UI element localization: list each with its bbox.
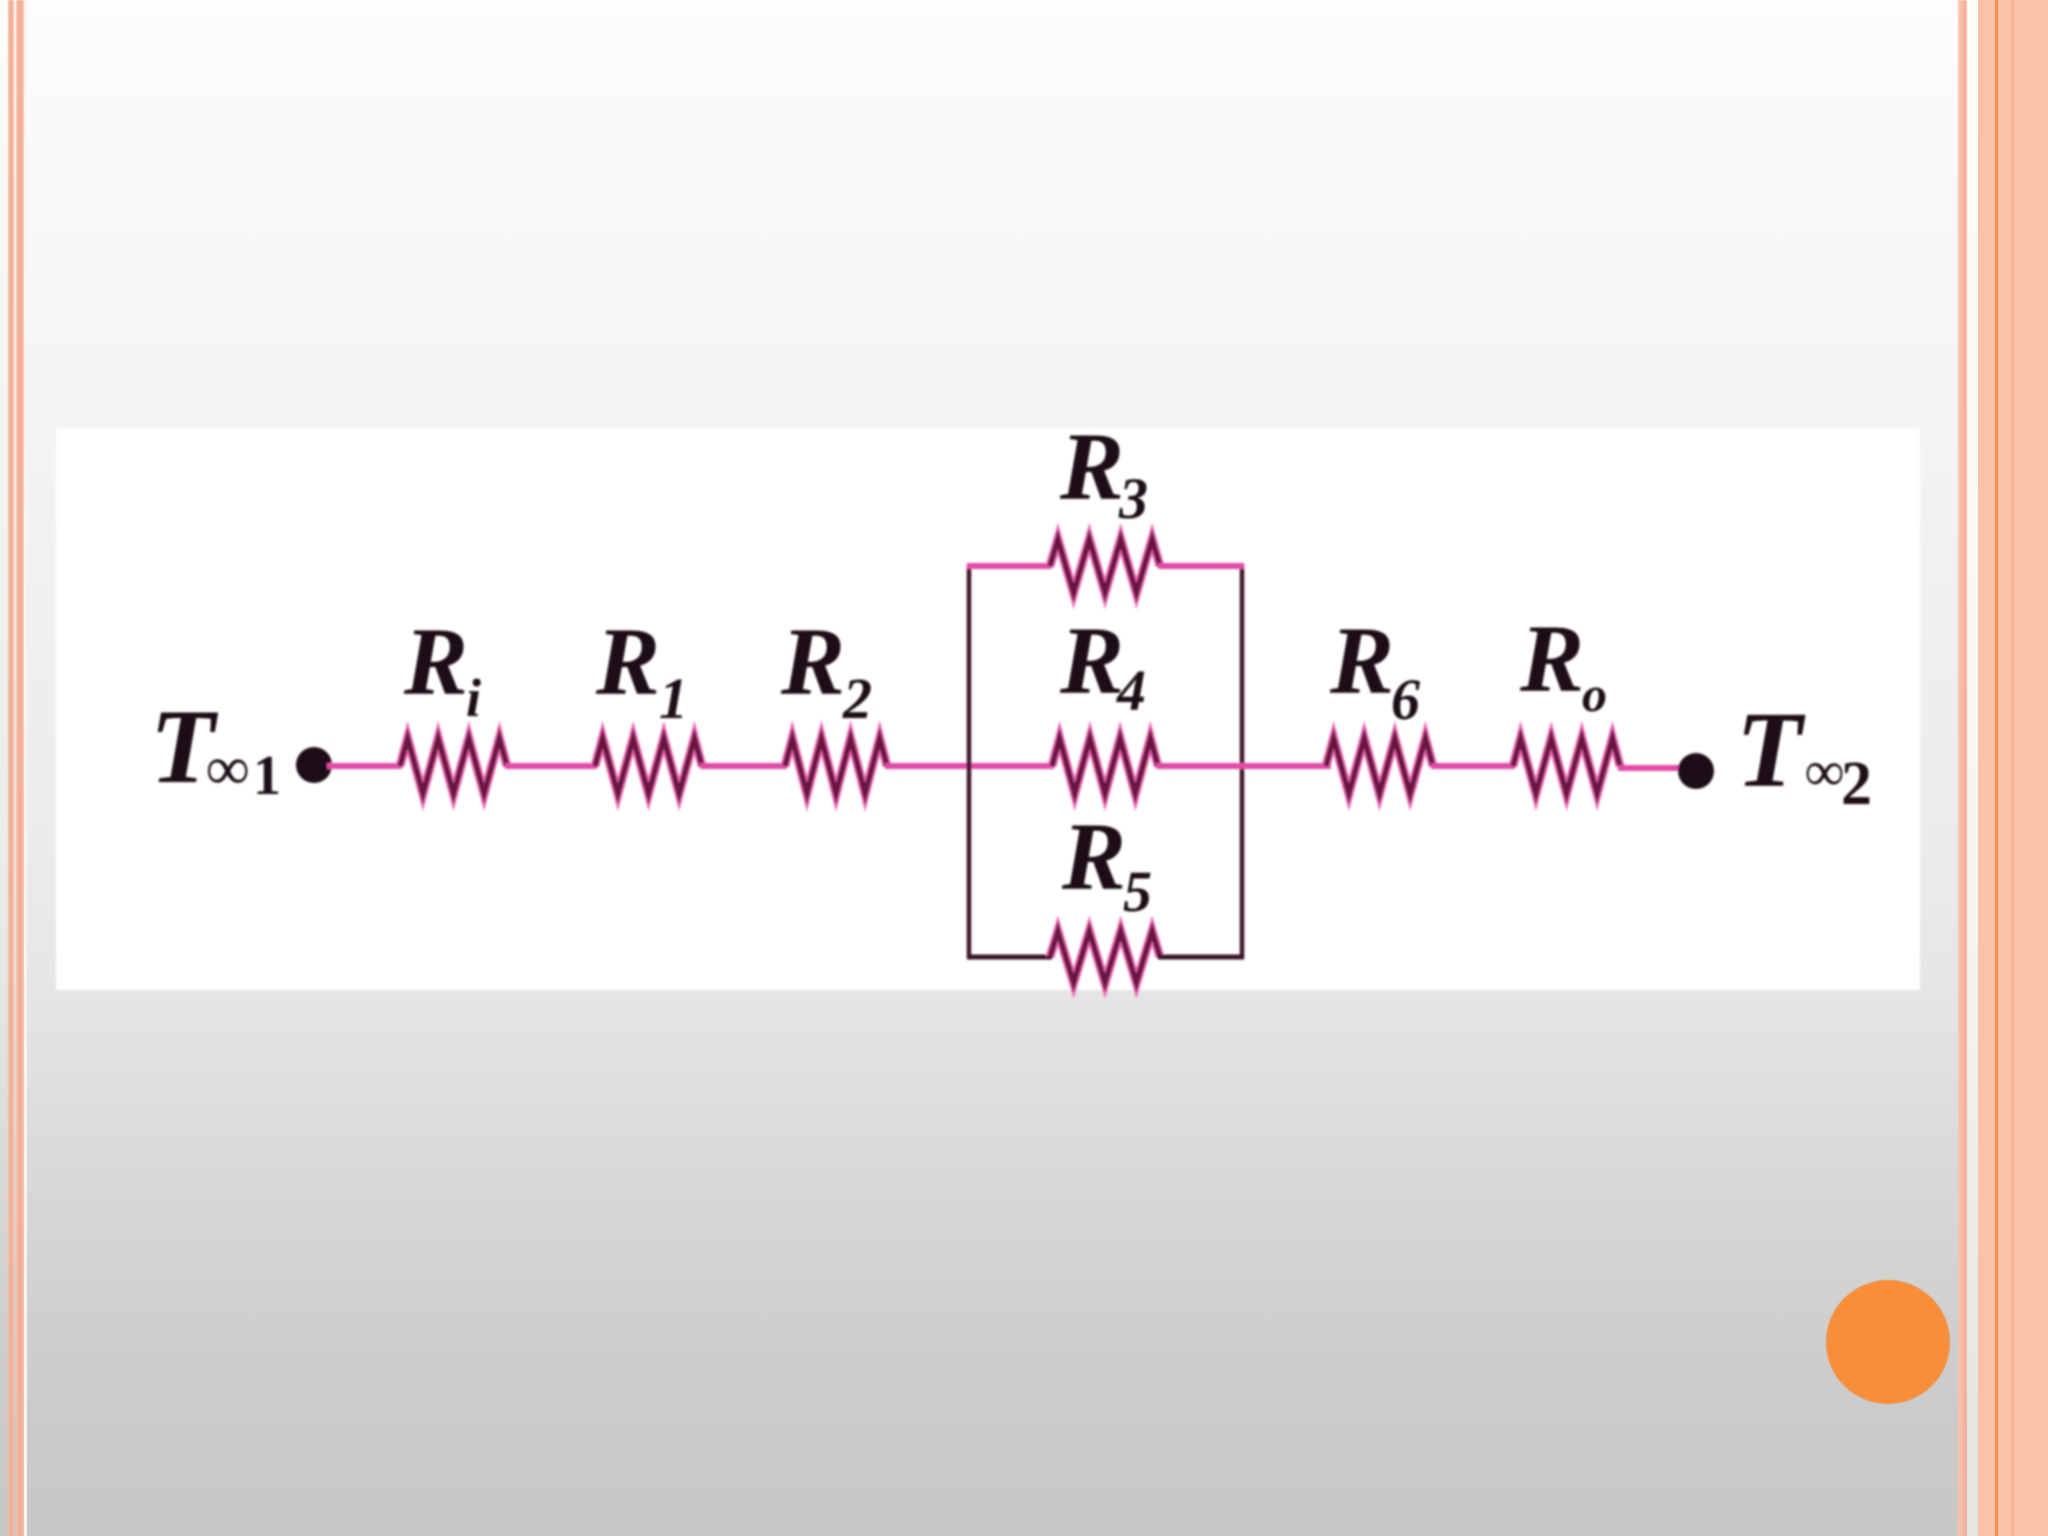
- label R3: [1059, 413, 1148, 531]
- resistor R5: [1050, 931, 1160, 983]
- svg-text:2: 2: [842, 666, 872, 731]
- svg-text:2: 2: [1841, 750, 1872, 818]
- svg-text:1: 1: [659, 666, 688, 731]
- wire R1 to R2: [700, 763, 787, 769]
- svg-text:i: i: [466, 668, 481, 728]
- label R6: [1329, 607, 1420, 732]
- svg-text:6: 6: [1391, 667, 1420, 732]
- resistor Ro: [1513, 738, 1620, 794]
- wire box to R6: [1156, 763, 1331, 769]
- label R5: [1061, 803, 1152, 924]
- wire R6 to Ro: [1431, 763, 1515, 769]
- wire top-right branch: [1158, 563, 1244, 569]
- right border main band: [1978, 0, 2048, 1536]
- resistor R4: [1052, 738, 1158, 794]
- svg-text:R: R: [1059, 607, 1124, 714]
- svg-text:R: R: [403, 608, 468, 715]
- right border thin stripe: [1958, 0, 1967, 1536]
- svg-text:o: o: [1582, 666, 1607, 722]
- svg-text:4: 4: [1116, 658, 1146, 723]
- label T_inf2: [1736, 691, 1872, 818]
- wire node1 to Ri: [327, 763, 402, 769]
- svg-text:R: R: [595, 608, 660, 715]
- wire top-left branch: [967, 563, 1052, 569]
- node T_inf2 dot: [1678, 753, 1714, 789]
- resistor R1: [595, 738, 702, 794]
- white content panel: [56, 428, 1920, 990]
- svg-text:5: 5: [1123, 859, 1152, 924]
- svg-text:∞: ∞: [205, 735, 249, 803]
- label R4: [1059, 607, 1146, 723]
- resistor R3: [1050, 539, 1160, 593]
- label T_inf1: [150, 688, 281, 807]
- resistor R6: [1326, 738, 1433, 794]
- right border dark line: [1995, 0, 1998, 1536]
- label Ri: [403, 608, 481, 728]
- svg-text:R: R: [1329, 607, 1394, 714]
- right border seam: [2011, 0, 2014, 1536]
- left border stripe 2: [16, 0, 24, 1536]
- parallel box right vertical: [1240, 564, 1245, 959]
- wire Ri to R1: [505, 763, 597, 769]
- wire Ro to node2: [1618, 765, 1684, 771]
- resistor R2: [785, 738, 887, 794]
- resistor Ri: [400, 738, 507, 794]
- node T_inf1 dot: [296, 747, 332, 783]
- svg-text:∞: ∞: [1804, 741, 1844, 803]
- svg-text:T: T: [1736, 691, 1806, 810]
- svg-text:1: 1: [253, 745, 281, 807]
- wire bottom-right branch: [1158, 955, 1244, 960]
- label R1: [595, 608, 688, 731]
- left border cream edge: [24, 0, 27, 1536]
- svg-text:R: R: [1059, 413, 1124, 520]
- wire bottom-left branch: [967, 955, 1052, 960]
- orange circle decoration: [1826, 1280, 1950, 1404]
- left border stripe 1: [8, 0, 14, 1536]
- wire R2 into parallel box: [885, 763, 1054, 769]
- parallel box left vertical: [967, 564, 972, 959]
- svg-text:R: R: [1061, 803, 1126, 910]
- right border translucent gap: [1967, 0, 1978, 1536]
- svg-text:3: 3: [1118, 466, 1148, 531]
- label Ro: [1519, 605, 1607, 722]
- svg-text:R: R: [780, 608, 845, 715]
- svg-text:R: R: [1519, 605, 1584, 712]
- label R2: [780, 608, 872, 731]
